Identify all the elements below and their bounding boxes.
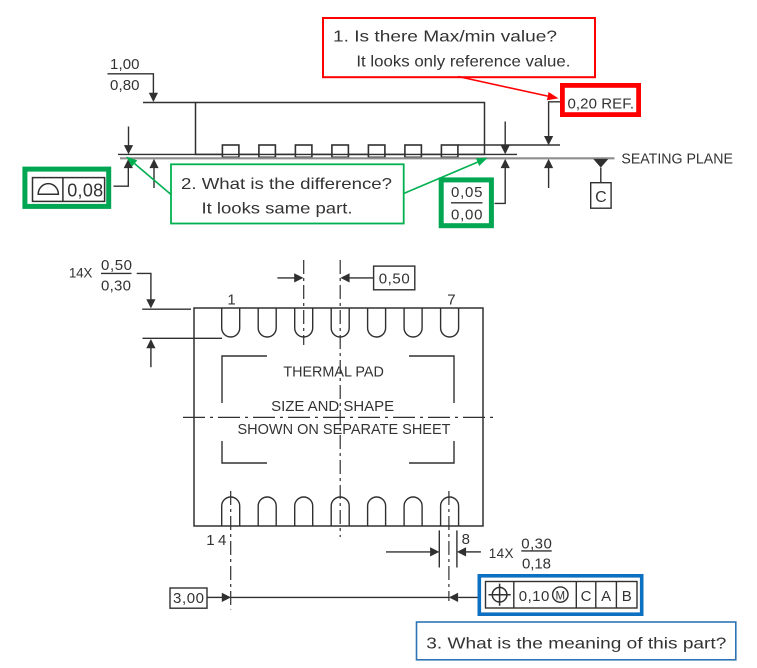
svg-text:It looks same part.: It looks same part. (202, 201, 353, 218)
callout 3 blue box (417, 622, 736, 660)
flatness dome symbol (38, 184, 58, 195)
thermal pad bracket top-right (409, 356, 454, 403)
centerline pin 14 (230, 491, 232, 610)
pin 4 pad (top row) (331, 308, 349, 337)
wire 3,00 dimension line left (207, 596, 223, 598)
arrow right to pin 8 left edge (386, 547, 439, 556)
arrow left to pin 8 centerline (449, 593, 458, 602)
arrow up to seating plane with 0,08 leader (114, 159, 133, 186)
svg-text:SEATING PLANE: SEATING PLANE (621, 151, 733, 168)
pin 13 pad (bottom row) (258, 497, 276, 526)
arrow left to package centerline (340, 273, 373, 282)
wire 3,00 dimension line span (231, 596, 449, 598)
lead L6 side view (405, 145, 422, 157)
callout 2 green box (171, 164, 404, 223)
wire package top edge extension (142, 308, 191, 310)
flatness frame divider (62, 178, 64, 202)
arrow up to seating plane (body height) (149, 159, 158, 188)
arrow up to seating plane (0,20 pair) (544, 159, 553, 188)
boxed dimension 3,00 (170, 588, 207, 608)
arrow right to pin 3 centerline (277, 273, 303, 282)
wire datum triangle to C box (600, 168, 602, 183)
lead L4 side view (332, 145, 349, 157)
pin 10 pad (bottom row) (368, 497, 386, 526)
wire pin 8 left edge extension (438, 530, 440, 567)
package bottom view outline (194, 308, 483, 526)
svg-text:0,05: 0,05 (451, 184, 483, 201)
svg-text:0,30: 0,30 (521, 536, 552, 553)
svg-text:0,10: 0,10 (519, 588, 550, 605)
thermal pad bracket top-left (222, 356, 267, 403)
svg-text:THERMAL PAD: THERMAL PAD (283, 364, 384, 381)
boxed dimension 0,50 pitch (374, 266, 415, 290)
seating plane line (120, 157, 615, 159)
svg-text:14X: 14X (489, 546, 514, 561)
svg-text:8: 8 (462, 531, 470, 548)
thermal pad bracket bottom-left (222, 441, 267, 463)
svg-text:SIZE AND SHAPE: SIZE AND SHAPE (271, 398, 394, 415)
leader wire for 0,50/0,30 (137, 273, 151, 300)
arrow down to standoff line (right) (501, 122, 510, 155)
arrow up to pin end line (146, 339, 155, 367)
svg-text:3,00: 3,00 (173, 590, 204, 607)
wire stub to feature control frame (458, 596, 477, 598)
frame divider 4 (615, 582, 617, 609)
svg-text:1. Is there Max/min value?: 1. Is there Max/min value? (333, 29, 557, 46)
arrow down to body top (149, 93, 158, 102)
fraction bar 0,50/0,30 (101, 272, 132, 274)
lead L2 side view (259, 145, 276, 157)
wire pin 8 right edge extension (456, 530, 458, 567)
lead L3 side view (295, 145, 312, 157)
frame divider 3 (595, 582, 597, 609)
leader wire for 1,00/0,80 (143, 74, 153, 94)
blue highlight box feature control frame (479, 576, 641, 614)
MMC modifier circle M (553, 587, 568, 602)
callout 2 leader arrow right (404, 158, 488, 194)
red highlight box 0,20 REF. (562, 85, 638, 114)
svg-text:0,18: 0,18 (522, 555, 551, 572)
lead L1 side view (222, 145, 239, 157)
green highlight box 0,05/0,00 (441, 180, 491, 226)
svg-text:C: C (595, 189, 607, 206)
arrow left to pin 8 right edge (457, 547, 481, 556)
svg-text:It looks only reference value.: It looks only reference value. (356, 54, 570, 71)
pin 1 pad (top row) (222, 308, 240, 337)
pin 12 pad (bottom row) (295, 497, 313, 526)
pin 3 pad (top row) (295, 308, 313, 337)
seating plane datum triangle (593, 159, 608, 168)
feature control frame outline (486, 582, 638, 609)
datum C box (591, 183, 611, 209)
svg-text:0,30: 0,30 (101, 278, 131, 295)
svg-text:14X: 14X (69, 266, 93, 281)
svg-text:0,50: 0,50 (379, 271, 410, 288)
svg-text:B: B (622, 588, 632, 605)
thermal pad bracket bottom-right (409, 441, 454, 463)
svg-text:2. What is the difference?: 2. What is the difference? (181, 176, 392, 193)
arrow up to seating plane with 0,05 leader (495, 159, 510, 204)
svg-text:C: C (581, 588, 592, 605)
wire lead-top reference line (458, 144, 560, 146)
pin 9 pad (bottom row) (404, 497, 422, 526)
svg-text:M: M (556, 590, 566, 602)
leader wire from 0,20 REF box (549, 102, 560, 137)
fraction bar 0,05/0,00 (451, 202, 483, 204)
callout 2 leader arrow left (126, 157, 171, 195)
svg-text:0,20 REF.: 0,20 REF. (568, 96, 635, 113)
centerline package vertical (339, 260, 341, 537)
callout 1 red box (323, 18, 595, 77)
svg-text:0,08: 0,08 (67, 181, 103, 201)
true position symbol (489, 584, 511, 606)
svg-text:1: 1 (227, 292, 235, 309)
pin 6 pad (top row) (404, 308, 422, 337)
lead L5 side view (368, 145, 385, 157)
green highlight box flatness (25, 169, 109, 206)
pin 11 pad (bottom row) (331, 497, 349, 526)
arrow right to pin 14 centerline (222, 593, 231, 602)
wire body-top extension line (143, 102, 196, 104)
svg-text:SHOWN ON SEPARATE SHEET: SHOWN ON SEPARATE SHEET (238, 421, 451, 438)
wire pin bottom extension (143, 337, 223, 339)
arrow down to standoff line (left) (124, 127, 133, 155)
svg-text:7: 7 (447, 292, 455, 309)
callout 1 leader arrow (458, 77, 559, 101)
pin 2 pad (top row) (258, 308, 276, 337)
pin 8 pad (bottom row) (441, 497, 459, 526)
pin 5 pad (top row) (368, 308, 386, 337)
centerline pin 3 (303, 260, 305, 345)
lead L7 side view (441, 145, 458, 157)
svg-text:A: A (601, 588, 611, 605)
svg-text:1,00: 1,00 (110, 56, 140, 73)
pin 14 pad (bottom row) (222, 497, 240, 526)
frame divider 2 (575, 582, 577, 609)
flatness frame (33, 178, 105, 202)
centerline pin 8 (448, 491, 450, 601)
svg-text:0,80: 0,80 (110, 77, 140, 94)
arrow down to package top edge (146, 299, 155, 308)
package body side view outline (196, 103, 485, 155)
fraction bar 1,00/0,80 (108, 73, 144, 75)
svg-text:3. What is the meaning of this: 3. What is the meaning of this part? (426, 636, 726, 653)
pin 7 pad (top row) (441, 308, 459, 337)
svg-text:0,00: 0,00 (451, 207, 483, 224)
wire lead standoff line (118, 153, 517, 155)
fraction bar 0,30/0,18 (521, 550, 551, 552)
frame divider 1 (513, 582, 515, 609)
centerline package horizontal (183, 416, 497, 418)
arrow down to lead top line (544, 136, 553, 145)
svg-text:0,50: 0,50 (101, 257, 132, 274)
